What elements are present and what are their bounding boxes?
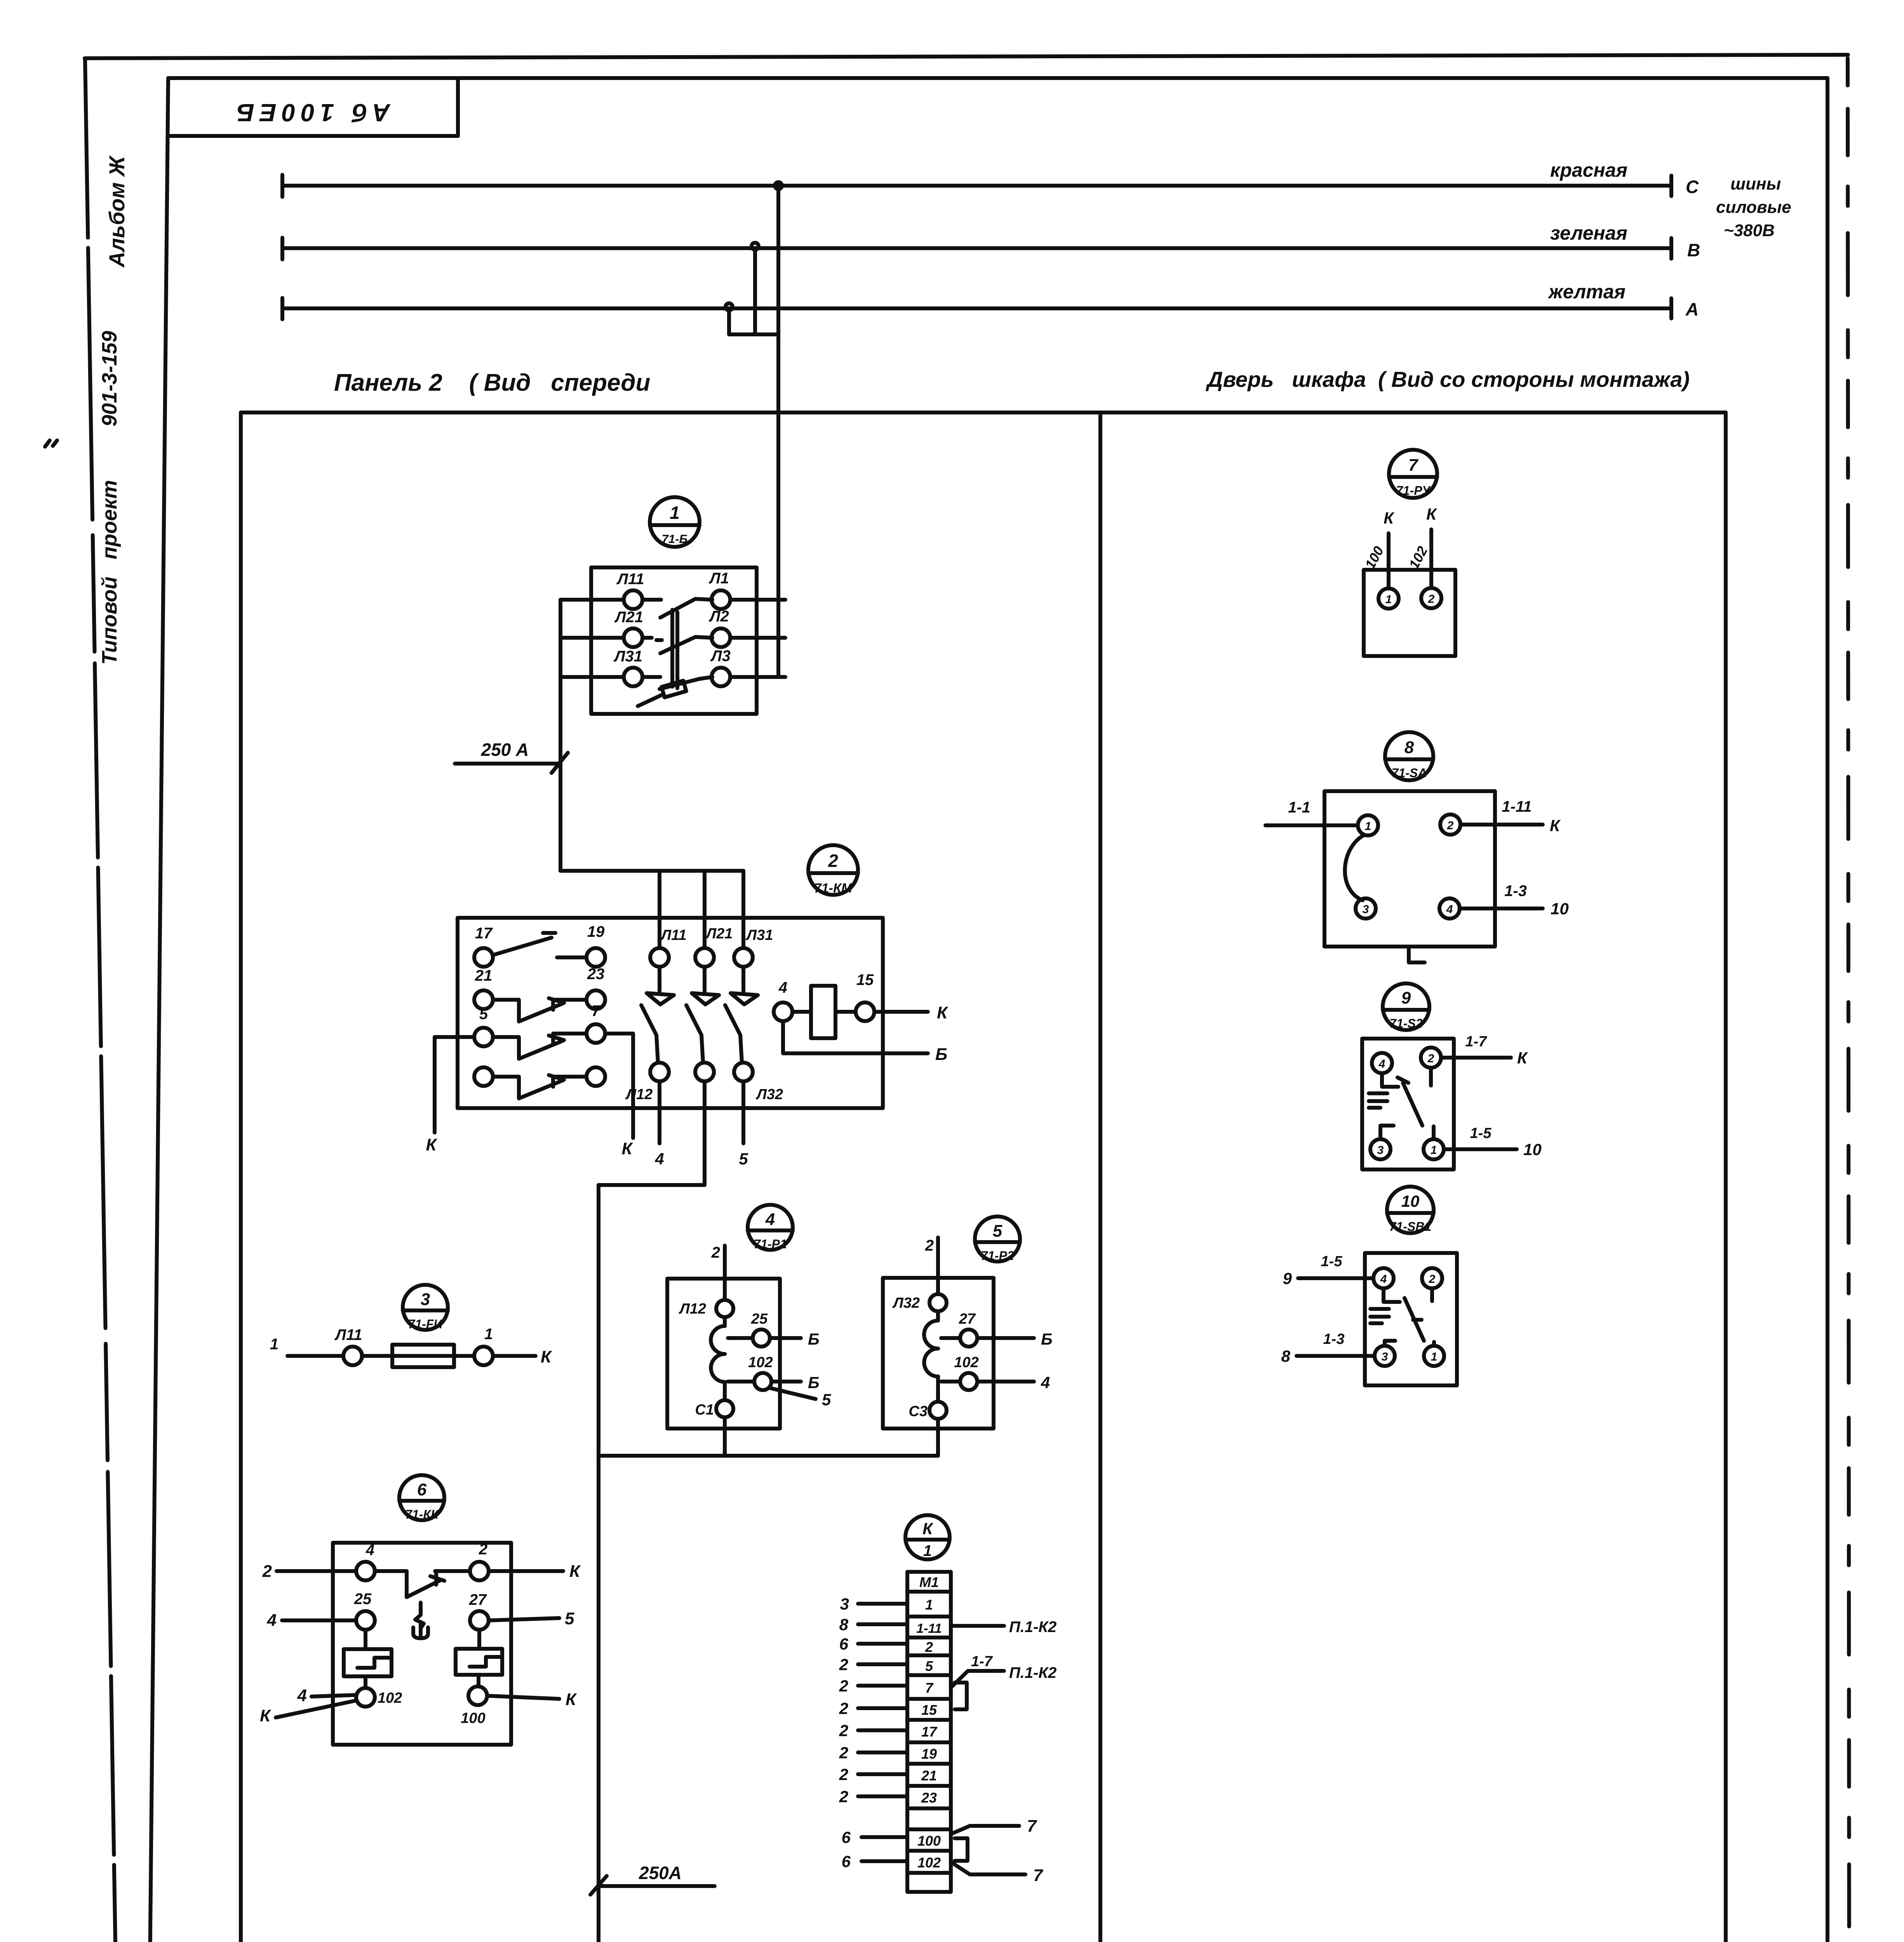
svg-text:2: 2 [839, 1787, 848, 1806]
svg-text:1-3: 1-3 [1504, 882, 1527, 900]
svg-text:1-1: 1-1 [1288, 799, 1311, 816]
svg-text:7: 7 [592, 1002, 601, 1020]
svg-text:2: 2 [839, 1765, 848, 1784]
svg-text:2: 2 [828, 851, 838, 871]
wire С1 down [723, 1417, 727, 1456]
wire С3 down [936, 1419, 940, 1456]
svg-text:1-11: 1-11 [916, 1621, 942, 1636]
svg-text:1: 1 [1431, 1350, 1438, 1363]
wire drop phase B [753, 248, 757, 334]
button 10 terminal 1 [1424, 1346, 1444, 1366]
relay 6 terminal 100 [461, 1686, 577, 1726]
svg-text:С: С [1686, 177, 1699, 197]
svg-text:5: 5 [565, 1609, 574, 1628]
svg-text:Аб 100ЕБ: Аб 100ЕБ [231, 99, 391, 127]
wire feeder down [597, 1456, 600, 1942]
wire 1-5 node 9 [1283, 1253, 1373, 1288]
svg-text:8: 8 [839, 1615, 849, 1634]
svg-text:П.1-К2: П.1-К2 [1009, 1618, 1056, 1636]
wire motor feeder bus [599, 1454, 938, 1458]
svg-text:71-SВ1: 71-SВ1 [1389, 1220, 1432, 1234]
svg-text:250А: 250А [639, 1863, 682, 1883]
svg-text:Л31: Л31 [745, 927, 773, 943]
svg-text:Л1: Л1 [708, 570, 729, 587]
relay 6 heater element left [344, 1630, 392, 1688]
svg-text:5: 5 [479, 1006, 488, 1023]
fuse body [362, 1345, 474, 1367]
relay 4 terminal 25 [728, 1311, 820, 1348]
wire feed header [560, 869, 743, 873]
device 7 designation circle 71-РУ [1389, 450, 1437, 498]
svg-text:Л3: Л3 [710, 647, 731, 665]
wire 102 to К [1406, 505, 1438, 588]
wire fuse to К [493, 1347, 552, 1366]
svg-text:5: 5 [822, 1390, 831, 1409]
button 10 terminal 4 [1373, 1268, 1394, 1288]
bus A желтая [282, 281, 1699, 319]
svg-text:Л21: Л21 [614, 609, 643, 626]
wire drop phase A [727, 308, 731, 334]
wire jog to main drop [729, 332, 778, 336]
svg-text:102: 102 [954, 1354, 978, 1371]
wire Л2 stub [730, 636, 785, 640]
wire 102 to 7 [951, 1862, 1044, 1885]
wire 1-3 to 10 [1460, 882, 1569, 918]
device 7 body [1364, 570, 1455, 656]
button 10 terminal 2 [1422, 1268, 1442, 1288]
svg-text:2: 2 [1427, 1052, 1434, 1065]
svg-text:2: 2 [925, 1639, 933, 1655]
label шины силовые ~380В [1716, 174, 1791, 240]
svg-text:5: 5 [739, 1150, 748, 1168]
aux contact 17-19 [474, 923, 605, 967]
svg-text:102: 102 [378, 1690, 402, 1706]
button 9 body [1362, 1039, 1454, 1169]
terminal block row dividers [907, 1592, 951, 1873]
svg-text:желтая: желтая [1547, 281, 1626, 303]
aux contact 21-23 [474, 966, 605, 1021]
wire drop Л11 [658, 871, 661, 948]
svg-text:4: 4 [654, 1150, 664, 1168]
stamp box A6 100E6 [168, 79, 458, 136]
svg-text:102: 102 [917, 1855, 941, 1871]
svg-text:4: 4 [365, 1542, 374, 1559]
fuse 3 designation circle 71-FИ [403, 1285, 448, 1331]
junction on bus A [726, 303, 733, 310]
svg-text:901-3-159: 901-3-159 [98, 331, 121, 426]
thermal relay 6 designation circle 71-КК [399, 1475, 444, 1521]
svg-text:4: 4 [1041, 1373, 1050, 1392]
svg-text:3: 3 [1377, 1144, 1384, 1157]
svg-text:17: 17 [475, 925, 493, 942]
svg-text:1: 1 [1365, 820, 1371, 833]
svg-text:6: 6 [842, 1828, 851, 1846]
wire 100 to 7 [951, 1817, 1037, 1836]
jumper bracket 100-102 [955, 1838, 968, 1861]
fuse terminal 1 [474, 1326, 493, 1365]
relay 6 terminal 27 [469, 1591, 574, 1630]
relay 4 designation circle 71-Р1 [748, 1205, 793, 1251]
selector 8 handle stub [1409, 947, 1425, 962]
svg-text:19: 19 [587, 923, 605, 940]
svg-text:3: 3 [1382, 1350, 1388, 1363]
svg-text:зеленая: зеленая [1550, 222, 1627, 244]
switch 1 blades [642, 599, 712, 689]
jumper bracket 7-15 [955, 1683, 967, 1709]
relay 6 terminal 25 [267, 1590, 375, 1630]
svg-text:С1: С1 [695, 1402, 714, 1418]
svg-text:К: К [541, 1347, 552, 1366]
wire pole 2 to feeder [599, 1081, 705, 1456]
svg-text:71-Р1: 71-Р1 [754, 1237, 787, 1251]
selector 8 designation circle 71-SА [1385, 732, 1433, 780]
svg-text:2: 2 [1428, 593, 1435, 606]
svg-text:2: 2 [262, 1562, 272, 1581]
panel 2 enclosure [241, 412, 1726, 1942]
rating 250 А [455, 740, 568, 773]
relay 5 terminal Л32 [892, 1294, 947, 1311]
svg-text:К: К [937, 1003, 949, 1022]
svg-text:3: 3 [421, 1290, 430, 1309]
svg-text:23: 23 [587, 966, 605, 983]
svg-text:10: 10 [1401, 1192, 1420, 1210]
svg-text:4: 4 [297, 1686, 307, 1705]
svg-text:6: 6 [842, 1852, 851, 1871]
svg-text:71-КМ: 71-КМ [814, 881, 853, 896]
relay 6 NC contact [375, 1571, 470, 1597]
svg-text:10: 10 [1551, 900, 1569, 918]
svg-text:1: 1 [1431, 1144, 1437, 1157]
svg-text:К: К [1384, 509, 1395, 527]
button 9 terminal 4 [1372, 1053, 1392, 1073]
wire 1-3 node 8 [1281, 1331, 1375, 1365]
wire Л1 stub [730, 598, 785, 602]
wire node 2 into relay 5 [925, 1237, 938, 1294]
svg-text:К: К [1517, 1049, 1528, 1067]
svg-text:Л21: Л21 [705, 926, 733, 942]
switch 1 terminal Л21 [614, 609, 643, 647]
relay 4 heater coil [711, 1317, 725, 1400]
svg-text:1: 1 [1385, 593, 1392, 606]
svg-text:250 А: 250 А [481, 740, 529, 760]
wire aux 5 to К [426, 1037, 474, 1154]
svg-text:Л11: Л11 [334, 1326, 362, 1343]
svg-text:М1: М1 [919, 1574, 939, 1590]
svg-text:К: К [1426, 505, 1438, 523]
svg-text:9: 9 [1283, 1269, 1292, 1288]
svg-text:100: 100 [917, 1833, 941, 1849]
contactor pole arrows [647, 967, 758, 1004]
wire to fuse [287, 1354, 343, 1358]
svg-text:К: К [566, 1690, 577, 1709]
svg-text:1: 1 [670, 503, 680, 523]
button 9 terminal 2 [1421, 1048, 1441, 1068]
svg-text:~380В: ~380В [1724, 221, 1775, 240]
svg-text:71-SА: 71-SА [1392, 766, 1427, 780]
relay 6 heater element right [456, 1630, 502, 1686]
svg-text:К: К [1550, 816, 1561, 835]
svg-text:Б: Б [935, 1045, 947, 1064]
svg-text:Б: Б [1041, 1330, 1053, 1348]
relay 5 heater coil [924, 1311, 938, 1402]
svg-text:27: 27 [959, 1311, 976, 1327]
svg-text:Л31: Л31 [613, 648, 642, 665]
svg-text:71-Р2: 71-Р2 [981, 1249, 1014, 1263]
svg-text:2: 2 [1429, 1273, 1436, 1286]
switch 1 terminal Л11 [616, 571, 644, 609]
relay 5 terminal 102 [941, 1354, 1050, 1392]
svg-text:Альбом Ж: Альбом Ж [104, 155, 129, 268]
button 9 terminal 1 [1424, 1139, 1444, 1159]
svg-text:проект: проект [98, 480, 121, 559]
svg-text:К: К [426, 1135, 437, 1154]
svg-text:К: К [621, 1139, 633, 1158]
svg-text:С3: С3 [908, 1403, 928, 1420]
terminal block body [907, 1572, 951, 1892]
svg-text:102: 102 [748, 1354, 773, 1371]
switch 1 terminal Л31 [613, 648, 642, 686]
contactor 2 body [458, 918, 883, 1108]
svg-text:19: 19 [921, 1746, 937, 1762]
wire 1-5 to 10 [1444, 1125, 1542, 1159]
relay 5 terminal С3 [908, 1402, 947, 1420]
button 9 mechanism [1369, 1068, 1434, 1139]
svg-text:Л11: Л11 [660, 927, 687, 943]
svg-text:3: 3 [840, 1595, 849, 1613]
svg-text:21: 21 [475, 967, 493, 984]
switch 1 terminal Л1 [708, 570, 730, 609]
svg-text:6: 6 [417, 1480, 427, 1499]
switch 1 terminal Л3 [710, 647, 731, 686]
wire Л12 stub 4 [654, 1081, 664, 1168]
wire riser down to contactor [559, 762, 562, 871]
wire Л11 to riser [560, 598, 624, 602]
svg-text:27: 27 [469, 1591, 487, 1608]
wire 2 into relay 6 [262, 1562, 356, 1581]
svg-text:красная: красная [1550, 159, 1627, 181]
svg-text:2: 2 [711, 1244, 720, 1261]
svg-text:9: 9 [1401, 988, 1411, 1008]
contactor 2 designation circle 71-КМ [808, 845, 858, 896]
svg-text:Л32: Л32 [892, 1295, 920, 1311]
thermal relay 6 body [333, 1543, 511, 1745]
svg-text:2: 2 [839, 1744, 848, 1762]
svg-text:15: 15 [921, 1702, 937, 1718]
svg-text:1: 1 [484, 1326, 493, 1343]
svg-text:Л12: Л12 [679, 1301, 706, 1317]
svg-text:8: 8 [1405, 738, 1414, 757]
svg-text:1: 1 [925, 1597, 933, 1613]
riser to 250A [559, 600, 562, 762]
svg-text:К: К [922, 1519, 934, 1538]
wire 1-7 to К [1441, 1034, 1528, 1067]
relay 5 terminal 27 [941, 1311, 1053, 1348]
contactor pole blades [641, 1005, 742, 1063]
relay 6 thermal release hook [413, 1603, 428, 1638]
switch 1 designation circle 71-Б [650, 497, 700, 547]
svg-text:4: 4 [1380, 1273, 1387, 1286]
selector 8 terminal 2 [1440, 814, 1460, 835]
wire drop Л31 [741, 871, 745, 948]
button 10 designation circle 71-SВ1 [1387, 1187, 1434, 1234]
contactor pole 3 terminals Л31 Л32 [734, 927, 783, 1103]
wire drop phase C [776, 186, 780, 677]
svg-text:4: 4 [267, 1611, 277, 1630]
wire aux 7 to К [605, 1034, 633, 1158]
svg-text:1-5: 1-5 [1470, 1125, 1492, 1142]
selector 8 terminal 1 [1358, 815, 1378, 835]
svg-text:шины: шины [1730, 174, 1781, 193]
relay 4 terminal С1 [695, 1400, 733, 1418]
svg-text:71-FИ: 71-FИ [408, 1317, 443, 1331]
svg-text:23: 23 [921, 1790, 937, 1806]
svg-text:10: 10 [1523, 1140, 1542, 1159]
relay 4 body [667, 1279, 780, 1429]
wire Л21 to riser [560, 636, 624, 640]
wire node 2 into relay 4 [711, 1244, 725, 1300]
svg-text:Б: Б [808, 1373, 820, 1392]
svg-text:К: К [260, 1706, 272, 1725]
contactor pole 1 terminals Л11 Л12 [625, 927, 687, 1103]
wire 1-11 to П.1-К2 [951, 1618, 1056, 1636]
wire Л32 stub 5 [739, 1081, 748, 1168]
relay 4 terminal Л12 [679, 1300, 733, 1317]
svg-text:Б: Б [808, 1330, 820, 1348]
wire relay 6 terminal 2 to К [489, 1562, 581, 1581]
svg-text:2: 2 [839, 1677, 848, 1695]
svg-text:17: 17 [921, 1724, 938, 1740]
fuse terminal Л11 [334, 1326, 362, 1365]
svg-text:1: 1 [923, 1542, 932, 1559]
svg-text:1-11: 1-11 [1502, 798, 1532, 815]
relay 5 designation circle 71-Р2 [975, 1216, 1020, 1263]
relay 6 terminal 4 top [356, 1542, 375, 1580]
button 10 mechanism [1370, 1288, 1434, 1346]
svg-text:7: 7 [1033, 1866, 1044, 1885]
wire Л3 stub [730, 675, 785, 679]
svg-text:2: 2 [839, 1721, 848, 1740]
svg-text:2: 2 [479, 1541, 487, 1558]
wire 100 to К [1362, 509, 1395, 588]
svg-text:7: 7 [1027, 1817, 1037, 1836]
margin text Типовой проект 901-3-159 Альбом Ж [98, 155, 129, 665]
svg-text:5: 5 [925, 1658, 933, 1674]
svg-text:1-5: 1-5 [1321, 1253, 1343, 1270]
svg-text:2: 2 [839, 1655, 848, 1674]
svg-text:2: 2 [839, 1699, 848, 1718]
relay 6 terminal 102 [260, 1686, 402, 1725]
svg-text:Л12: Л12 [625, 1086, 653, 1103]
switch 1 linkage [638, 610, 686, 706]
button 9 designation circle 71-S2 [1383, 983, 1429, 1030]
svg-text:5: 5 [993, 1222, 1002, 1241]
svg-text:71-Б: 71-Б [662, 532, 688, 546]
svg-text:Дверь шкафа ( Вид со стор: Дверь шкафа ( Вид со стороны монтажа) [1206, 367, 1690, 392]
bus C красная [282, 159, 1699, 197]
aux contact row 4 [474, 1067, 605, 1098]
aux contact 5-7 [474, 1002, 605, 1059]
svg-text:15: 15 [856, 971, 874, 988]
svg-text:71-КК: 71-КК [405, 1507, 439, 1521]
junction on bus C [775, 182, 782, 189]
svg-text:100: 100 [461, 1710, 485, 1726]
selector 8 body [1324, 791, 1495, 947]
contactor pole 2 terminals Л21 [695, 926, 733, 1081]
relay 5 body [883, 1278, 994, 1429]
device 7 terminal 2 [1421, 588, 1441, 608]
selector 8 terminal 4 [1439, 898, 1460, 919]
svg-text:71-РУ: 71-РУ [1396, 484, 1431, 498]
panel divider [1098, 412, 1102, 1942]
terminal block left wires [839, 1595, 907, 1871]
relay 6 terminal 2 [470, 1541, 489, 1580]
svg-text:К: К [569, 1562, 581, 1581]
svg-text:4: 4 [1378, 1058, 1385, 1070]
svg-text:6: 6 [839, 1635, 849, 1653]
svg-text:4: 4 [778, 979, 787, 996]
bus B зеленая [282, 222, 1700, 260]
svg-text:1-7: 1-7 [1465, 1034, 1488, 1050]
svg-text:4: 4 [1446, 903, 1453, 916]
svg-text:Л2: Л2 [708, 608, 729, 625]
svg-text:1: 1 [270, 1336, 278, 1353]
junction on bus B [752, 243, 759, 250]
svg-text:1-3: 1-3 [1323, 1331, 1345, 1347]
contactor coil 4-15 [774, 971, 874, 1038]
svg-text:71-S2: 71-S2 [1389, 1016, 1423, 1030]
selector 8 internal link [1345, 835, 1364, 900]
wire coil 4 to Б [783, 1021, 947, 1064]
wire coil 15 to К [874, 1003, 949, 1022]
svg-text:25: 25 [751, 1311, 768, 1327]
terminal block cell labels [916, 1574, 942, 1871]
svg-text:силовые: силовые [1716, 198, 1791, 217]
svg-text:25: 25 [354, 1590, 372, 1608]
switch 1 terminal Л2 [708, 608, 730, 647]
button 10 terminal 3 [1375, 1346, 1395, 1366]
button 9 terminal 3 [1370, 1139, 1391, 1159]
svg-text:Типовой: Типовой [98, 576, 121, 665]
svg-text:П.1-К2: П.1-К2 [1009, 1664, 1056, 1681]
rating 250А lower [590, 1863, 715, 1895]
svg-text:Л32: Л32 [755, 1086, 783, 1103]
svg-text:Панель 2 ( Вид спереди: Панель 2 ( Вид спереди [334, 369, 650, 396]
svg-text:8: 8 [1281, 1347, 1291, 1365]
svg-text:7: 7 [1408, 456, 1419, 475]
switch 1 body [591, 567, 757, 714]
relay 4 terminal 102 [728, 1354, 831, 1409]
wire 1-11 to К [1460, 798, 1561, 835]
wire 1-7 to П.1-К2 [951, 1653, 1056, 1688]
svg-text:3: 3 [1363, 903, 1369, 916]
svg-text:1-7: 1-7 [971, 1653, 993, 1670]
svg-text:Л11: Л11 [616, 571, 644, 588]
device 7 terminal 1 [1378, 588, 1399, 609]
svg-text:В: В [1687, 240, 1700, 260]
svg-text:2: 2 [925, 1237, 934, 1254]
wire drop Л21 [703, 871, 707, 948]
wire Л31 to riser [560, 675, 624, 679]
svg-text:21: 21 [921, 1768, 937, 1784]
terminal block К/1 designation circle [905, 1515, 950, 1559]
svg-text:А: А [1685, 299, 1699, 319]
svg-text:4: 4 [765, 1210, 775, 1229]
svg-text:7: 7 [925, 1680, 934, 1696]
wire 1-1 [1265, 799, 1358, 825]
button 10 body [1365, 1253, 1457, 1385]
svg-text:2: 2 [1447, 819, 1454, 832]
selector 8 terminal 3 [1356, 898, 1376, 919]
